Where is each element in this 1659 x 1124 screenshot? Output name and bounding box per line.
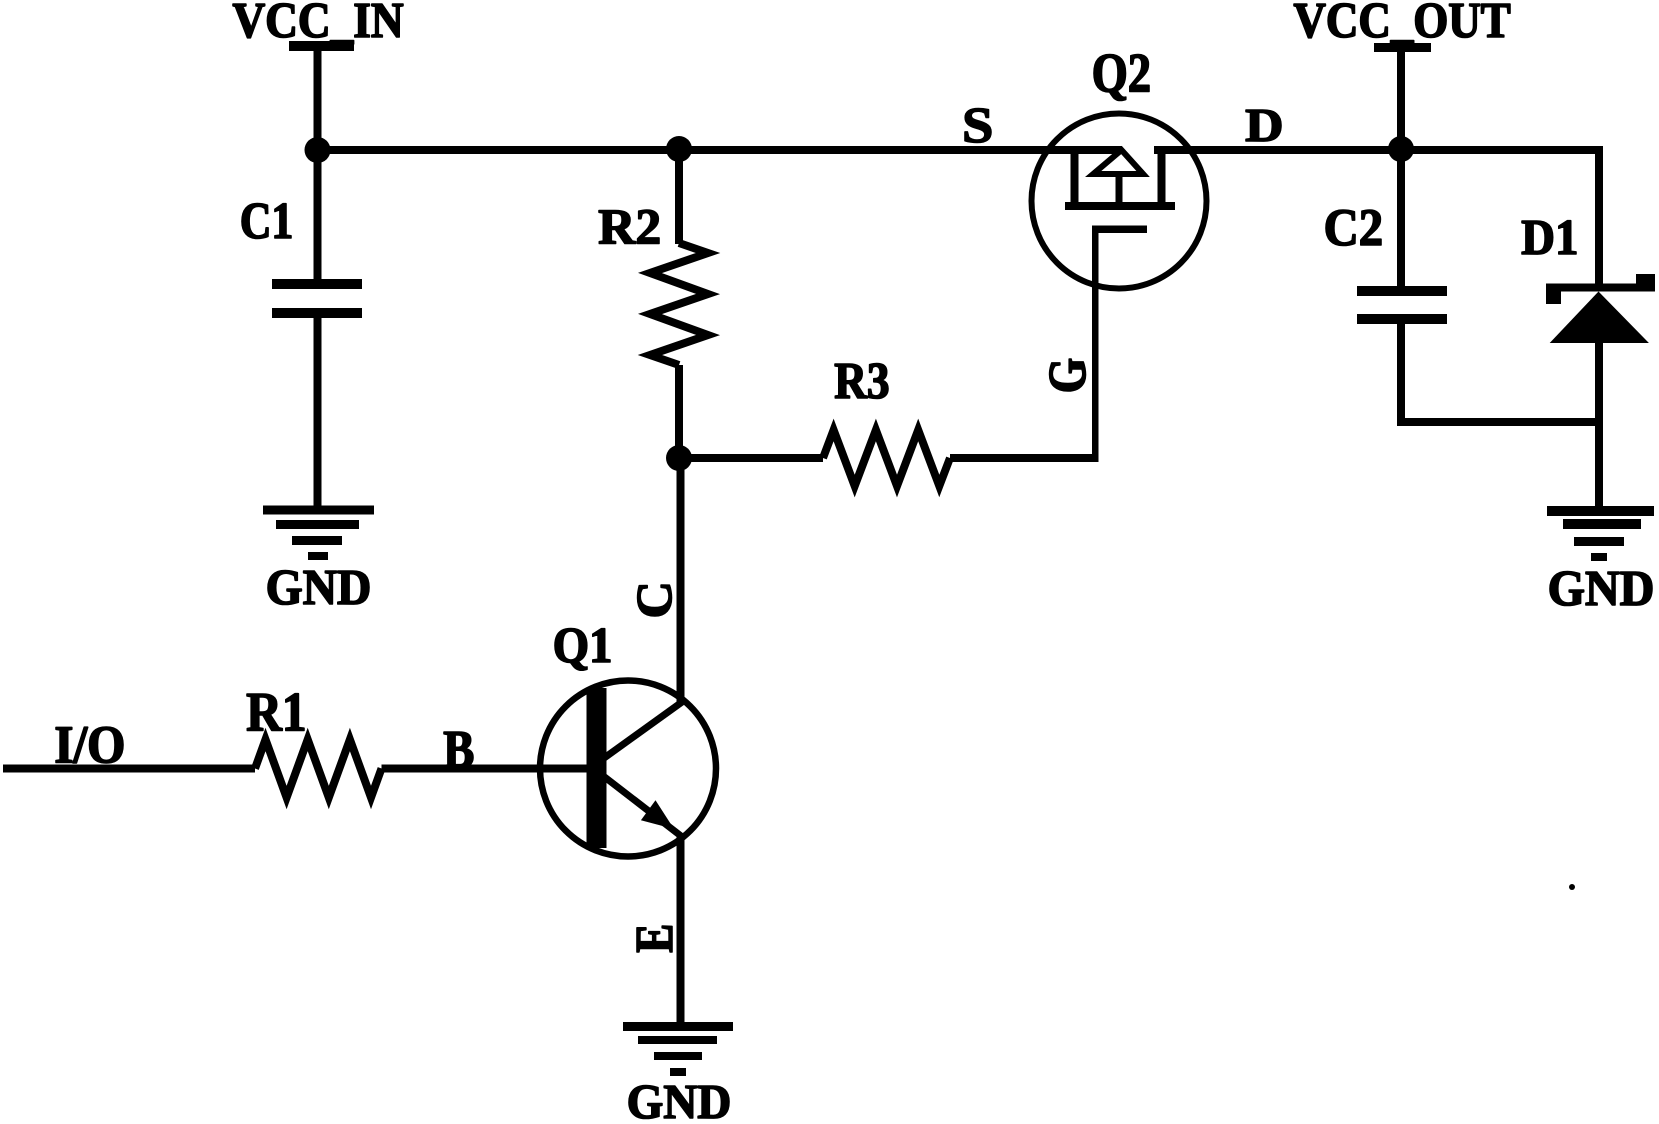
resistor R2 (650, 243, 708, 365)
label D1 (1522, 221, 1576, 254)
pin label G rotated (1050, 359, 1086, 391)
wire C2 top lead (1397, 150, 1405, 286)
label S (965, 109, 991, 143)
ground symbol below Q1 (623, 1022, 733, 1031)
wire I/O to R1 (3, 765, 255, 773)
label VCC_OUT (1294, 4, 1510, 44)
wire right branch top (1595, 150, 1603, 290)
transistor Q2 gate bar (1092, 226, 1147, 234)
label B (444, 732, 473, 768)
wire R2 top lead (675, 150, 683, 244)
stray speck (1569, 884, 1575, 890)
junction dot at VCC_OUT node (1388, 136, 1414, 162)
power bar VCC_IN (289, 41, 354, 51)
label I/O (56, 727, 123, 763)
label VCC_IN (233, 4, 403, 44)
transistor Q1 emitter stroke (602, 775, 681, 836)
wire collector lead (677, 458, 685, 703)
label R3 (835, 364, 888, 399)
wire C2 bottom lead (1397, 324, 1405, 422)
label R2 (599, 210, 659, 243)
transistor Q2 body circle (1032, 114, 1207, 289)
resistor R3 (823, 430, 950, 486)
wire C2 to D1 bottom horizontal (1397, 418, 1603, 426)
wire right branch bottom (1595, 343, 1603, 506)
transistor Q2 substrate bar (1065, 202, 1175, 210)
wire main horizontal left segment (313, 146, 1122, 154)
wire VCC_IN stem (314, 50, 322, 150)
label Q1 (555, 629, 610, 671)
junction dot at R2/R3/collector node (666, 445, 692, 471)
transistor Q2 drain lead (1158, 150, 1166, 206)
wire R3 right segment (950, 454, 1099, 462)
capacitor C1 (272, 279, 362, 289)
wire R2 bottom lead (675, 365, 683, 458)
capacitor C2 (1357, 286, 1447, 296)
diode D1 cathode bar (1546, 284, 1655, 292)
wire VCC_OUT stem (1397, 51, 1405, 150)
label D (1246, 110, 1281, 141)
label C2 (1326, 210, 1381, 245)
label GND right (1550, 572, 1652, 606)
wire emitter lead (677, 833, 685, 1023)
wire R3 left segment (679, 454, 823, 462)
transistor Q2 arrow stem (1116, 174, 1123, 204)
transistor Q1 body circle (540, 681, 716, 857)
ground symbol below D1 (1547, 506, 1654, 516)
junction dot at VCC_IN node (305, 137, 331, 163)
wire main horizontal right segment (1154, 146, 1603, 154)
diode D1 anode triangle (1550, 292, 1649, 344)
transistor Q2 arrow (1093, 150, 1143, 174)
diode D1 cathode left hook (1546, 291, 1561, 304)
wire R1 to base (382, 765, 587, 773)
wire gate riser (1092, 229, 1099, 458)
label GND mid (629, 1086, 729, 1119)
wire C1 top lead (314, 150, 322, 279)
pin label E rotated (637, 926, 672, 952)
pin label C rotated (638, 585, 672, 616)
transistor Q1 emitter arrowhead (641, 800, 674, 829)
transistor Q1 base bar (587, 688, 607, 848)
label Q2 (1094, 55, 1149, 101)
wire C1 bottom lead (314, 318, 322, 506)
power bar VCC_OUT (1374, 43, 1431, 52)
label GND left (268, 571, 369, 605)
label R1 (247, 694, 304, 731)
diode D1 cathode right hook (1636, 274, 1655, 284)
transistor Q1 collector stroke (600, 702, 682, 761)
label C1 (242, 204, 291, 239)
resistor R1 (255, 740, 382, 798)
ground symbol below C1 (263, 506, 374, 515)
transistor Q2 source lead (1071, 150, 1079, 206)
junction dot at R2 top (666, 136, 692, 162)
